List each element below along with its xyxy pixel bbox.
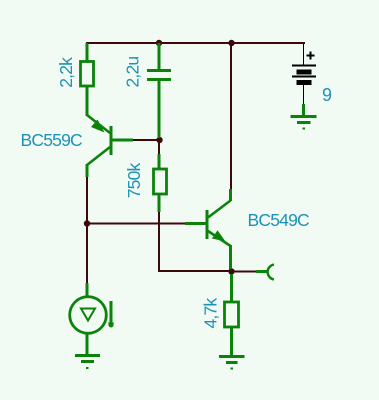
svg-text:2,2k: 2,2k (56, 57, 76, 88)
svg-text:BC559C: BC559C (21, 130, 83, 150)
svg-text:2,2u: 2,2u (123, 57, 143, 88)
svg-text:BC549C: BC549C (248, 210, 310, 230)
svg-text:9: 9 (322, 85, 332, 105)
svg-text:750k: 750k (124, 163, 144, 199)
svg-text:4,7k: 4,7k (201, 298, 221, 329)
